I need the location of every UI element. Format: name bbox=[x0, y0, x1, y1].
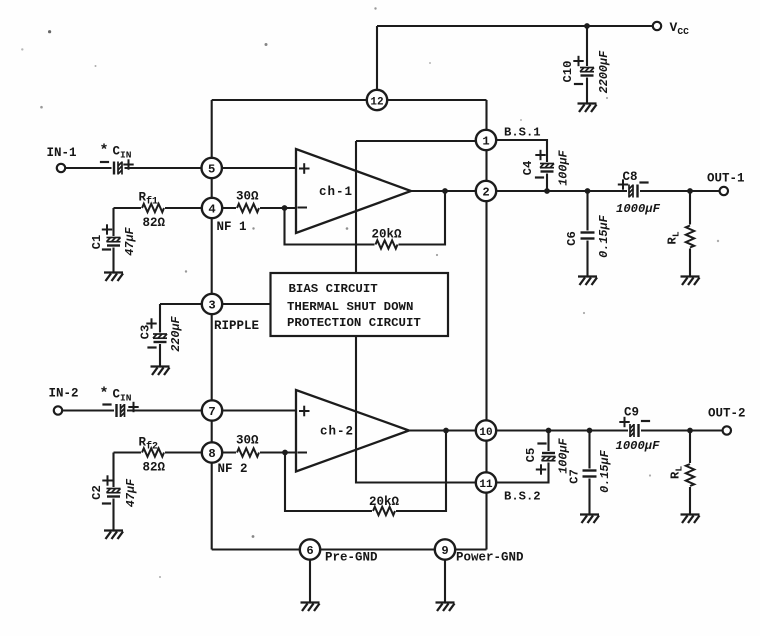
svg-text:*: * bbox=[100, 143, 109, 160]
svg-text:C10: C10 bbox=[561, 61, 575, 83]
bias/protection circuit block bbox=[271, 273, 449, 336]
pin 12 bbox=[367, 90, 387, 110]
svg-text:1000µF: 1000µF bbox=[616, 202, 661, 216]
wire bias column upper bbox=[355, 141, 357, 274]
svg-text:IN-1: IN-1 bbox=[47, 146, 77, 160]
svg-text:C1: C1 bbox=[90, 235, 104, 250]
capacitor CIN (ch-2 input) bbox=[114, 403, 127, 419]
wire RL1 branch bbox=[689, 191, 691, 276]
pin 4 bbox=[202, 198, 222, 218]
svg-text:OUT-2: OUT-2 bbox=[708, 407, 746, 421]
svg-text:IN-2: IN-2 bbox=[49, 387, 79, 401]
svg-text:BIAS CIRCUIT: BIAS CIRCUIT bbox=[289, 282, 379, 296]
pin 10 bbox=[476, 420, 496, 440]
op-amp U2 ch-2 bbox=[296, 390, 409, 472]
svg-text:47µF: 47µF bbox=[124, 478, 138, 507]
wire pin8 row left bbox=[114, 451, 213, 453]
polarity + CIN2 bbox=[128, 402, 138, 412]
wire pin9 ground branch bbox=[444, 550, 446, 602]
resistor 20k ch-1 bbox=[375, 239, 399, 251]
wire C1 branch bbox=[112, 208, 114, 272]
ground C7 bbox=[580, 515, 599, 524]
wire pin12 horizontal rail bbox=[212, 99, 487, 101]
capacitor C5 bbox=[540, 451, 557, 463]
capacitor C2 bbox=[105, 487, 122, 499]
wire C10 branch bbox=[586, 26, 588, 103]
svg-text:Power-GND: Power-GND bbox=[456, 551, 524, 565]
polarity + CIN1 bbox=[123, 159, 133, 169]
node NF1 junction bbox=[282, 205, 288, 211]
pin 2 bbox=[476, 181, 496, 201]
wire IN-1 row bbox=[65, 167, 296, 169]
svg-text:*: * bbox=[100, 386, 109, 403]
svg-text:C7: C7 bbox=[568, 469, 582, 484]
resistor 20k ch-2 bbox=[372, 505, 396, 517]
wire pin3 to bias box bbox=[212, 303, 271, 305]
capacitor C3 bbox=[152, 333, 169, 345]
op-amp U1 ch-1 bbox=[296, 149, 411, 233]
ground pin9 bbox=[436, 603, 455, 612]
svg-text:Pre-GND: Pre-GND bbox=[325, 551, 378, 565]
node RL1 junction bbox=[687, 188, 693, 194]
capacitor C10 bbox=[579, 66, 596, 78]
wire C6 branch bbox=[586, 191, 588, 276]
polarity + C3 bbox=[146, 318, 156, 328]
svg-text:C3: C3 bbox=[139, 325, 153, 340]
terminal Vcc bbox=[653, 22, 661, 30]
svg-text:B.S.2: B.S.2 bbox=[504, 490, 541, 504]
svg-text:8: 8 bbox=[208, 447, 215, 461]
ground C1 bbox=[104, 273, 123, 282]
polarity - CIN1 bbox=[100, 161, 109, 163]
polarity - CIN2 bbox=[102, 403, 111, 405]
capacitor C8 bbox=[627, 183, 640, 199]
wire ch-1 feedback loop bbox=[285, 191, 446, 245]
polarity + C10 bbox=[573, 56, 583, 66]
svg-text:9: 9 bbox=[441, 544, 448, 558]
polarity - C10 bbox=[574, 83, 583, 85]
wire pin6 ground branch bbox=[309, 550, 311, 602]
svg-text:6: 6 bbox=[306, 544, 313, 558]
capacitor C4 bbox=[539, 162, 556, 174]
svg-text:0.15µF: 0.15µF bbox=[597, 214, 611, 257]
resistor 30ohm ch-2 bbox=[236, 447, 260, 459]
svg-text:20kΩ: 20kΩ bbox=[372, 228, 403, 242]
svg-text:47µF: 47µF bbox=[123, 226, 137, 255]
pin 1 bbox=[476, 130, 496, 150]
polarity + C4 bbox=[535, 150, 545, 160]
svg-text:C9: C9 bbox=[624, 406, 639, 420]
wire IN-2 row bbox=[62, 409, 296, 411]
wire C3 branch bbox=[160, 304, 212, 366]
svg-text:1000µF: 1000µF bbox=[616, 439, 661, 453]
svg-text:5: 5 bbox=[208, 162, 215, 176]
svg-text:THERMAL SHUT DOWN: THERMAL SHUT DOWN bbox=[287, 300, 413, 314]
svg-text:C8: C8 bbox=[623, 170, 638, 184]
svg-text:4: 4 bbox=[208, 202, 215, 216]
pin 9 bbox=[435, 539, 455, 559]
svg-text:RL: RL bbox=[666, 231, 682, 244]
svg-text:OUT-1: OUT-1 bbox=[707, 172, 745, 186]
capacitor C6 (plain) bbox=[579, 231, 596, 241]
wire B.S.2 branch bbox=[486, 431, 549, 483]
node C5 junction bbox=[546, 428, 552, 434]
ground RL1 bbox=[681, 277, 700, 286]
pin 6 bbox=[300, 539, 320, 559]
ground C3 bbox=[151, 367, 170, 376]
svg-text:NF 2: NF 2 bbox=[218, 462, 248, 476]
node C7 junction bbox=[587, 428, 593, 434]
svg-text:30Ω: 30Ω bbox=[236, 190, 259, 204]
svg-text:C4: C4 bbox=[521, 161, 535, 176]
polarity - C8 bbox=[639, 181, 648, 183]
resistor Rf2 bbox=[141, 447, 165, 459]
svg-text:PROTECTION CIRCUIT: PROTECTION CIRCUIT bbox=[287, 316, 421, 330]
svg-text:ch-2: ch-2 bbox=[320, 425, 354, 439]
wire OUT-2 row bbox=[486, 429, 723, 431]
svg-text:3: 3 bbox=[208, 298, 215, 312]
svg-text:100µF: 100µF bbox=[557, 149, 571, 185]
ground C6 bbox=[578, 277, 597, 286]
resistor RL1 bbox=[684, 225, 696, 249]
svg-text:NF 1: NF 1 bbox=[217, 220, 247, 234]
resistor Rf1 bbox=[141, 202, 165, 214]
node C4/output junction bbox=[544, 188, 550, 194]
svg-text:1: 1 bbox=[482, 134, 489, 148]
capacitor CIN (ch-1 input) bbox=[112, 160, 125, 176]
polarity - C4 bbox=[535, 176, 544, 178]
wire right pin column bbox=[485, 100, 487, 550]
svg-text:20kΩ: 20kΩ bbox=[369, 495, 400, 509]
ground C10 bbox=[578, 104, 597, 113]
wire Vcc rail bbox=[377, 25, 653, 27]
ground RL2 bbox=[681, 515, 700, 524]
wire pin4 row left bbox=[114, 207, 213, 209]
polarity + C1 bbox=[102, 224, 112, 234]
wire pin12 to Vcc rail bbox=[376, 26, 378, 95]
capacitor C9 bbox=[628, 423, 641, 439]
ground pin6 bbox=[301, 603, 320, 612]
capacitor C1 bbox=[105, 236, 122, 248]
svg-text:CIN: CIN bbox=[113, 388, 132, 404]
polarity + C8 bbox=[618, 179, 628, 189]
svg-text:12: 12 bbox=[370, 96, 383, 108]
terminal OUT-2 bbox=[723, 426, 731, 434]
node Vcc/C10 junction bbox=[584, 23, 590, 29]
wire bottom ground rail bbox=[212, 548, 487, 550]
node NF2 junction bbox=[282, 450, 288, 456]
pin 7 bbox=[202, 400, 222, 420]
svg-text:RL: RL bbox=[669, 466, 685, 479]
node RL2 junction bbox=[687, 428, 693, 434]
wire ch-2 output bbox=[408, 429, 486, 431]
svg-text:100µF: 100µF bbox=[557, 437, 571, 473]
svg-text:2: 2 bbox=[482, 185, 489, 199]
wire B.S.1 branch bbox=[486, 140, 547, 191]
terminal IN-2 bbox=[54, 406, 62, 414]
node feedback1/output junction bbox=[442, 188, 448, 194]
wire bias column lower bbox=[356, 335, 486, 483]
polarity + C2 bbox=[102, 475, 112, 485]
polarity - C3 bbox=[147, 346, 156, 348]
terminal OUT-1 bbox=[720, 187, 728, 195]
pin 8 bbox=[202, 442, 222, 462]
ground C2 bbox=[104, 531, 123, 540]
svg-text:10: 10 bbox=[479, 427, 492, 439]
svg-text:7: 7 bbox=[208, 405, 215, 419]
svg-text:B.S.1: B.S.1 bbox=[504, 126, 541, 140]
wire C2 branch bbox=[112, 453, 114, 530]
capacitor C7 (plain) bbox=[581, 469, 598, 479]
svg-text:82Ω: 82Ω bbox=[143, 461, 166, 475]
svg-text:ch-1: ch-1 bbox=[319, 185, 353, 199]
pin 3 bbox=[202, 294, 222, 314]
terminal IN-1 bbox=[57, 164, 65, 172]
polarity - C2 bbox=[102, 502, 111, 504]
polarity + C5 bbox=[536, 464, 546, 474]
svg-text:C2: C2 bbox=[90, 485, 104, 500]
wire C7 branch bbox=[588, 431, 590, 514]
svg-text:CIN: CIN bbox=[113, 145, 132, 161]
svg-text:82Ω: 82Ω bbox=[143, 216, 166, 230]
polarity - C9 bbox=[641, 420, 650, 422]
svg-text:220µF: 220µF bbox=[169, 315, 183, 351]
wire ch-2 feedback loop bbox=[285, 431, 446, 512]
svg-text:30Ω: 30Ω bbox=[236, 434, 259, 448]
wire OUT-1 row bbox=[486, 190, 720, 192]
resistor 30ohm ch-1 bbox=[236, 202, 260, 214]
resistor RL2 bbox=[684, 463, 696, 487]
polarity + C9 bbox=[619, 417, 629, 427]
polarity - C5 bbox=[537, 442, 546, 444]
node feedback2/output junction bbox=[443, 428, 449, 434]
polarity - C1 bbox=[102, 248, 111, 250]
wire ch-1 output bbox=[408, 190, 486, 192]
pin 5 bbox=[202, 158, 222, 178]
svg-text:2200µF: 2200µF bbox=[597, 50, 611, 93]
svg-text:0.15µF: 0.15µF bbox=[598, 449, 612, 492]
svg-text:C5: C5 bbox=[524, 448, 538, 463]
wire RL2 branch bbox=[689, 431, 691, 514]
svg-text:C6: C6 bbox=[565, 231, 579, 246]
wire pin4 row right bbox=[212, 207, 296, 209]
svg-text:RIPPLE: RIPPLE bbox=[214, 319, 259, 333]
wire left pin column bbox=[211, 100, 213, 550]
wire pin8 row right bbox=[212, 451, 296, 453]
svg-text:VCC: VCC bbox=[670, 20, 690, 37]
pin 11 bbox=[476, 472, 496, 492]
wire pin1 left segment bbox=[356, 140, 486, 142]
node C6 junction bbox=[585, 188, 591, 194]
svg-text:11: 11 bbox=[479, 479, 493, 491]
